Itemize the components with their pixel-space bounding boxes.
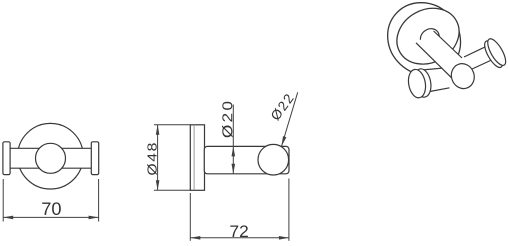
dimension Ø20: top arrowhead <box>232 146 236 156</box>
dimension 70: left arrowhead <box>3 216 13 220</box>
side view: ball Ø22 <box>258 144 289 175</box>
3D view: right disc face ellipse <box>484 36 508 68</box>
dimension 72: right arrowhead <box>279 236 289 240</box>
dimension 72: dimension line <box>190 237 289 239</box>
dimension Ø20: dimension line <box>232 105 234 174</box>
3D view: post cylinder body <box>416 31 462 78</box>
dimension 72: left arrowhead <box>190 236 200 240</box>
dimension Ø48: bottom extension line <box>154 189 190 191</box>
3D view: right disc back rim ellipse <box>481 38 506 70</box>
dimension 72: left extension line <box>189 193 191 241</box>
3D view: left disc face ellipse <box>406 68 427 99</box>
dimension 70: dimension line <box>3 216 98 218</box>
3D view: plate back rim ellipse <box>373 0 476 90</box>
3D view: post lower edge <box>416 43 452 78</box>
dimension 72: right extension line <box>288 179 290 241</box>
3D view: hub boss ellipse <box>417 25 443 50</box>
dimension Ø48: top extension line <box>154 124 190 126</box>
front view: crossbar bottom line <box>10 167 91 169</box>
dimension 70: right extension line <box>98 179 100 222</box>
side view: wall plate rectangle <box>190 125 204 191</box>
dimension Ø22: leader arrowhead <box>282 136 287 146</box>
dimension Ø48: text <box>147 143 157 175</box>
front view: crossbar top line <box>10 147 91 149</box>
dimension Ø22: leader line <box>282 92 298 146</box>
3D view: crossbar left arm body <box>420 67 453 93</box>
dimension 72: text <box>230 225 248 237</box>
dimension 70: left extension line <box>2 179 4 222</box>
dimension Ø48: dimension line <box>157 125 159 191</box>
3D view: plate face ellipse <box>387 0 469 75</box>
3D view: crossbar left arm lower edge <box>424 88 450 93</box>
front view: left end cap disc <box>3 142 10 175</box>
3D view: center ball knob <box>448 60 478 91</box>
3D view: post upper edge <box>434 31 462 58</box>
front view: right end cap disc <box>91 142 98 175</box>
3D view: crossbar left arm upper edge <box>420 67 451 70</box>
3D view: left disc back rim ellipse <box>412 67 433 98</box>
3D view: crossbar right arm body <box>467 46 494 68</box>
dimension Ø22: text <box>270 93 294 121</box>
dimension Ø20: bottom arrowhead <box>232 164 236 174</box>
dimension Ø48: bottom arrowhead <box>156 180 160 190</box>
front view: wall plate circle Ø48 <box>18 123 84 189</box>
front view: center ball Ø22 <box>36 143 66 173</box>
side view: post cylinder Ø20 <box>204 146 289 173</box>
dimension Ø48: top arrowhead <box>156 125 160 135</box>
front view: crossbar body <box>10 148 91 168</box>
dimension Ø20: text <box>222 102 233 138</box>
3D view: crossbar right arm lower edge <box>471 61 491 70</box>
dimension 70: right arrowhead <box>89 216 99 220</box>
side view: plate flange line <box>193 125 195 191</box>
dimension 70: text <box>42 202 61 215</box>
3D view: crossbar right arm upper edge <box>464 45 489 57</box>
